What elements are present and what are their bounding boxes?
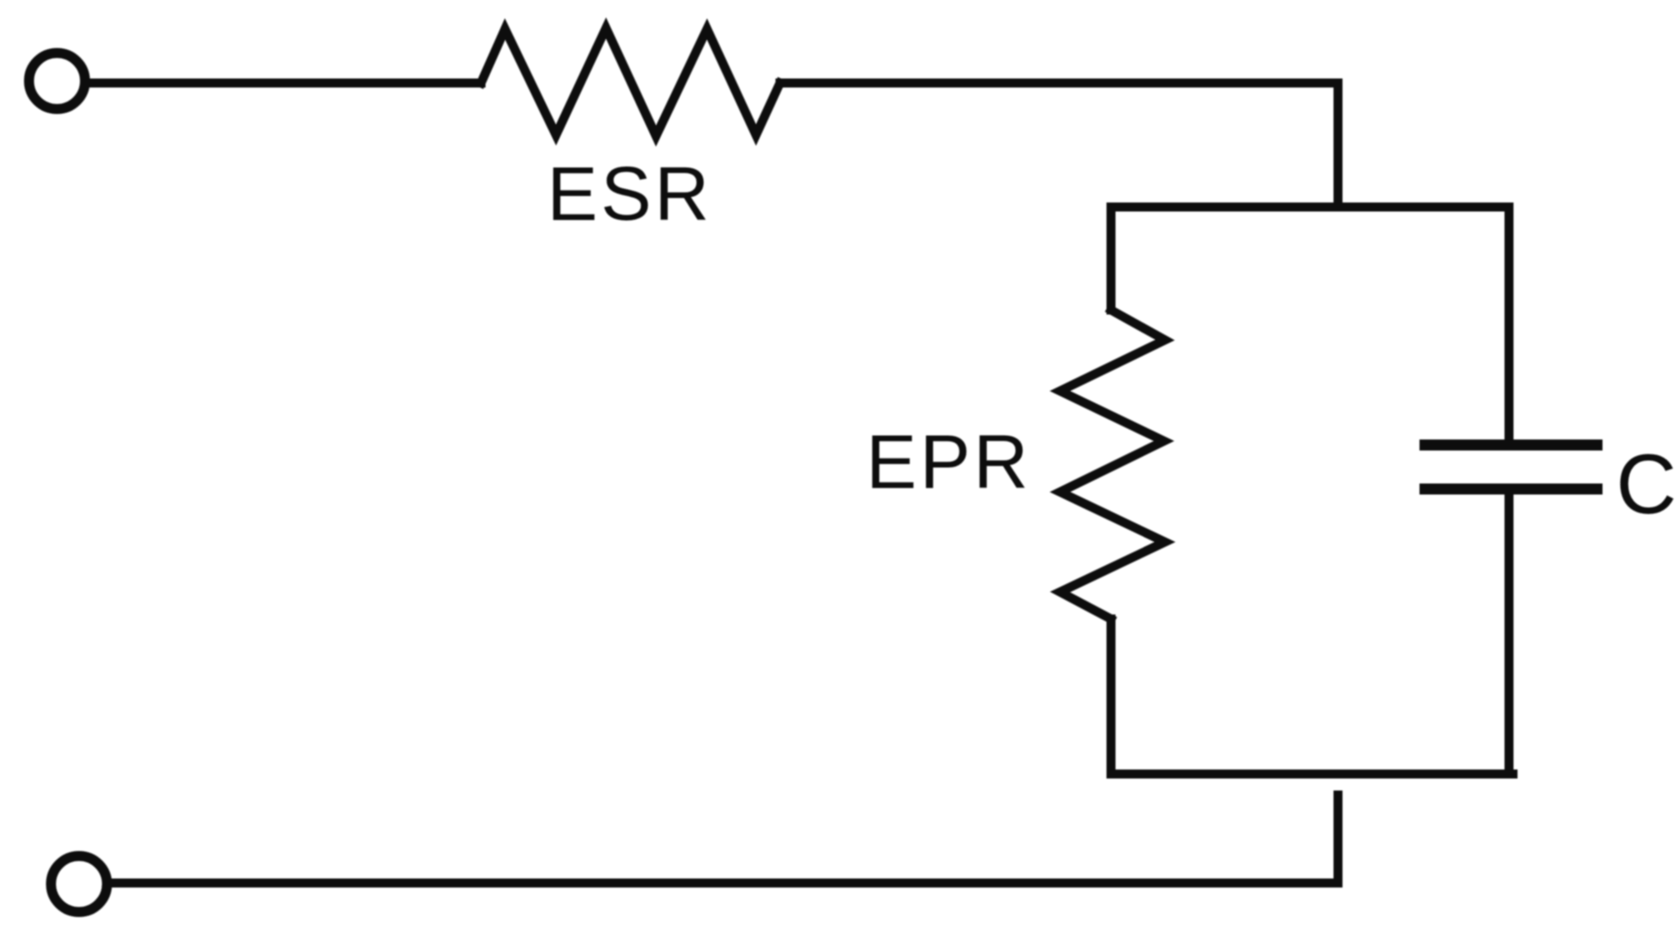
wire left branch upper <box>1107 207 1116 310</box>
wire right branch upper <box>1505 207 1514 444</box>
wire top of parallel block <box>1111 203 1509 212</box>
wire T1 to ESR <box>89 79 481 88</box>
capacitor C bottom plate <box>1425 484 1597 495</box>
terminal T2 bottom-left <box>51 856 107 912</box>
capacitor C top plate <box>1425 440 1597 451</box>
wire vertical into parallel block <box>1334 83 1343 207</box>
wire stub below block <box>110 795 1338 883</box>
wire right branch lower <box>1505 490 1514 774</box>
wire ESR to top-right corner <box>780 79 1338 88</box>
svg-text:ESR: ESR <box>547 152 712 237</box>
wire left branch lower <box>1107 619 1116 774</box>
svg-text:EPR: EPR <box>866 420 1031 505</box>
svg-text:C: C <box>1616 437 1677 531</box>
resistor EPR <box>1060 310 1165 619</box>
terminal T1 top-left <box>29 53 85 109</box>
wire bottom of parallel block <box>1111 770 1513 779</box>
resistor ESR <box>481 28 780 136</box>
